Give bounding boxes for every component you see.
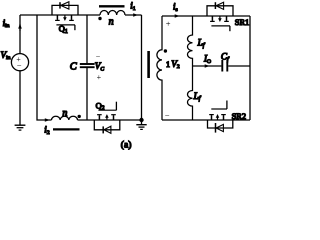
mosfet SR2 diode cathode bar — [215, 123, 217, 133]
mosfet SR2 drain tick — [211, 115, 213, 120]
mosfet Q2 diode cathode bar — [102, 126, 104, 133]
wire top rail left section — [20, 14, 142, 16]
mosfet SR2 gate lead — [226, 101, 228, 110]
capacitor Cf plates — [221, 60, 223, 72]
svg-text:+: + — [97, 73, 102, 82]
current arrow is — [175, 14, 180, 18]
svg-text:Cf: Cf — [221, 52, 230, 63]
svg-text:iin: iin — [3, 18, 10, 29]
mosfet SR2 diode triangle — [216, 124, 223, 131]
polarity dot top winding — [98, 17, 101, 20]
svg-text:Lf: Lf — [193, 91, 202, 102]
ground node junction dot — [139, 118, 143, 122]
mosfet Q1 diode cathode bar — [59, 2, 61, 8]
mosfet Q2 source tick — [113, 115, 115, 120]
mosfet SR1 substrate arrow — [219, 16, 221, 19]
mosfet Q2 diode triangle — [104, 126, 111, 133]
svg-text:VC: VC — [95, 61, 105, 72]
svg-text:i1: i1 — [130, 1, 136, 12]
ground under Vin — [15, 124, 26, 126]
svg-text:−: − — [96, 52, 101, 61]
inductor Lf2 — [188, 66, 193, 120]
svg-text:−: − — [17, 60, 22, 70]
mosfet Q2 gate lead — [115, 102, 117, 111]
mosfet SR2 substrate arrow — [217, 117, 219, 120]
mosfet Q2 body diode loop — [94, 120, 120, 130]
mosfet SR2 source tick — [223, 115, 225, 120]
wire left branch vertical x37 — [37, 15, 52, 120]
current arrow i1 — [133, 13, 138, 17]
wire Vin branch vertical — [19, 15, 21, 54]
svg-text:Q1: Q1 — [59, 25, 68, 35]
svg-text:IO: IO — [203, 54, 211, 65]
mosfet Q1 gate lead — [74, 25, 76, 30]
svg-text:SR2: SR2 — [232, 112, 246, 121]
transformer secondary winding — [157, 16, 162, 120]
svg-text:Lf: Lf — [197, 38, 206, 49]
mosfet SR1 body diode loop — [207, 6, 233, 16]
svg-text:n: n — [109, 17, 114, 28]
wire right rail — [249, 16, 251, 120]
svg-text:Vin: Vin — [1, 50, 11, 61]
mosfet Q1 drain tick — [56, 15, 58, 20]
mosfet Q2 drain tick — [98, 115, 100, 120]
wire bottom rail right section — [162, 119, 250, 121]
core bar bottom winding — [53, 128, 80, 130]
svg-text:C: C — [70, 62, 78, 73]
capacitor C plates — [80, 63, 95, 65]
mosfet SR1 gate lead — [229, 26, 231, 31]
svg-text:i2: i2 — [44, 125, 50, 136]
svg-text:SR1: SR1 — [235, 18, 249, 27]
ground under node — [141, 120, 143, 125]
winding n bottom — [52, 116, 78, 120]
current arrow i2 — [45, 118, 50, 122]
wire bottom rail left section — [78, 119, 142, 121]
wire top rail right section — [162, 15, 250, 17]
mosfet SR2 body diode loop — [208, 120, 233, 128]
svg-text:V2: V2 — [171, 59, 180, 70]
current arrow Io — [205, 64, 210, 68]
mosfet SR2 gate bar — [211, 108, 227, 110]
mosfet Q1 substrate arrow — [64, 15, 66, 18]
wire Vin to ground — [19, 71, 21, 125]
mosfet Q1 gate bar — [56, 24, 75, 26]
mosfet SR1 drain tick — [211, 16, 213, 21]
wire capacitor C branch — [86, 15, 88, 120]
core bar top winding — [99, 5, 125, 7]
mosfet SR1 diode triangle — [216, 2, 224, 9]
winding n top — [100, 10, 125, 15]
svg-text:n: n — [62, 108, 67, 119]
svg-text:is: is — [173, 2, 178, 13]
polarity dot bottom winding — [78, 115, 81, 118]
mosfet SR1 diode cathode bar — [214, 2, 216, 9]
svg-text:1: 1 — [166, 60, 170, 69]
mosfet Q2 gate bar — [98, 109, 116, 111]
source Vin circle — [11, 54, 28, 71]
mosfet SR1 source tick — [226, 16, 228, 21]
current arrow i_in — [19, 24, 21, 31]
mosfet Q2 substrate arrow — [106, 118, 108, 121]
mosfet Q1 diode triangle — [61, 2, 69, 9]
mosfet Q1 body diode loop — [52, 5, 78, 15]
svg-text:Q2: Q2 — [96, 101, 105, 111]
svg-text:+: + — [166, 18, 171, 28]
svg-text:−: − — [165, 111, 170, 121]
transformer primary wire — [141, 15, 143, 120]
inductor Lf1 — [188, 16, 193, 66]
mosfet Q1 source tick — [71, 15, 73, 20]
mosfet SR1 gate bar — [211, 25, 230, 27]
polarity dot secondary — [164, 49, 167, 52]
wire output middle — [193, 65, 251, 67]
transformer core bar — [147, 51, 150, 78]
svg-text:(a): (a) — [121, 140, 132, 150]
